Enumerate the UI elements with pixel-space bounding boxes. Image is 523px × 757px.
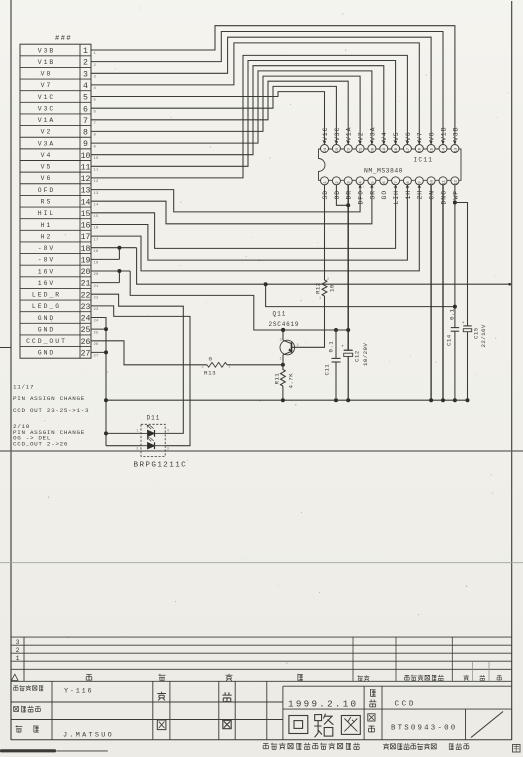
svg-text:V1A: V1A xyxy=(346,127,353,141)
scan crease upper xyxy=(0,450,523,452)
svg-text:3: 3 xyxy=(83,70,88,79)
svg-text:14: 14 xyxy=(94,203,99,207)
svg-text:GND: GND xyxy=(38,326,56,333)
svg-text:0.1: 0.1 xyxy=(327,341,334,353)
wire 16V pins 20-21 join xyxy=(91,269,130,283)
svg-text:10: 10 xyxy=(94,157,99,161)
title area frame xyxy=(283,686,512,740)
svg-text:2H: 2H xyxy=(417,190,424,200)
svg-text:18: 18 xyxy=(81,245,91,254)
revision table digit column xyxy=(16,637,24,681)
wire V2 connector pin 8 to IC pin 21 xyxy=(91,76,360,144)
IC11 top pin circles 24-13 xyxy=(321,145,459,153)
LED D11 element 1 xyxy=(141,425,165,437)
svg-text:0.1: 0.1 xyxy=(448,308,455,320)
svg-text:V4: V4 xyxy=(41,152,53,159)
connector CN1 table frame xyxy=(20,44,91,358)
svg-text:GND: GND xyxy=(38,315,56,322)
title block left section lines xyxy=(11,681,512,739)
IC11 reference label xyxy=(414,157,434,164)
svg-text:2SC4619: 2SC4619 xyxy=(269,321,300,328)
svg-text:1: 1 xyxy=(136,430,139,434)
svg-text:V1B: V1B xyxy=(38,59,56,66)
C11 labels xyxy=(323,341,334,376)
svg-text:17: 17 xyxy=(407,147,411,152)
svg-text:V8: V8 xyxy=(41,71,53,78)
svg-text:6: 6 xyxy=(83,105,88,114)
label 開発コード xyxy=(14,685,44,691)
revision table column dividers xyxy=(353,637,489,681)
wire GND pins 24-25-27 vertical xyxy=(91,318,108,446)
svg-text:-8V: -8V xyxy=(38,257,56,264)
svg-text:15: 15 xyxy=(431,147,435,152)
wire RD IC pin3 down bold xyxy=(347,185,349,351)
wire DS IC pin1 down xyxy=(324,185,326,281)
wire PW branch to C15 xyxy=(455,203,468,326)
wire-to-pin arrowheads xyxy=(323,141,457,188)
wire OFD connector pin 13 to IC pin 4 xyxy=(91,185,360,212)
svg-text:CN: CN xyxy=(429,190,436,200)
scan crease lower xyxy=(0,562,523,564)
svg-text:RS: RS xyxy=(41,199,53,206)
svg-text:1: 1 xyxy=(16,655,20,662)
svg-text:BRPG1211C: BRPG1211C xyxy=(134,462,188,470)
svg-text:21: 21 xyxy=(360,147,364,152)
svg-text:V3C: V3C xyxy=(334,127,341,141)
Q11 labels xyxy=(269,311,300,328)
wire V7 connector pin 4 to IC pin 16 xyxy=(91,43,419,144)
resistor R12 xyxy=(322,280,327,296)
svg-text:13: 13 xyxy=(81,187,91,196)
svg-text:10/20V: 10/20V xyxy=(362,343,369,366)
wire V1A connector pin 7 to IC pin 22 xyxy=(91,81,348,144)
svg-text:V3A: V3A xyxy=(38,140,56,147)
svg-text:10: 10 xyxy=(329,284,336,292)
note CCD OUT 23-25 xyxy=(13,407,89,414)
resistor R13 xyxy=(207,362,227,367)
svg-text:11/17: 11/17 xyxy=(13,384,34,391)
svg-text:LIH: LIH xyxy=(393,190,400,204)
svg-text:22: 22 xyxy=(81,291,91,300)
capacitor C14 xyxy=(451,328,459,403)
transistor Q11 2SC4619 xyxy=(280,328,295,365)
bottom left scan smudge xyxy=(0,749,108,752)
R11 labels xyxy=(274,373,295,389)
svg-text:DR: DR xyxy=(346,190,353,200)
svg-text:LED_R: LED_R xyxy=(32,292,61,299)
svg-text:14: 14 xyxy=(442,147,446,152)
svg-text:2: 2 xyxy=(83,59,88,68)
svg-text:R12: R12 xyxy=(315,282,322,294)
svg-text:IC11: IC11 xyxy=(414,157,434,164)
svg-text:23: 23 xyxy=(94,308,99,312)
svg-text:11: 11 xyxy=(94,169,99,173)
svg-text:3: 3 xyxy=(167,448,170,452)
svg-text:OFD: OFD xyxy=(38,187,56,194)
svg-text:V2: V2 xyxy=(358,131,365,141)
svg-text:J.MATSUO: J.MATSUO xyxy=(63,732,114,740)
R12 labels xyxy=(315,278,336,301)
label 図番 xyxy=(368,714,375,732)
revision header kanji 変更通知番号 xyxy=(405,675,444,681)
svg-text:CCD_OUT: CCD_OUT xyxy=(26,338,67,345)
wire 16V feed to supply rail xyxy=(130,271,348,330)
revision header kanji 担当 xyxy=(358,675,370,681)
wire CCD_OUT connector pin 26 xyxy=(91,341,207,365)
svg-text:DNG: DNG xyxy=(440,190,447,204)
svg-text:V3B: V3B xyxy=(452,127,459,141)
svg-text:V6: V6 xyxy=(405,131,412,141)
svg-text:LED_G: LED_G xyxy=(32,303,61,310)
svg-text:20: 20 xyxy=(371,147,375,152)
label 検 xyxy=(157,692,166,701)
LED D11 element 2 xyxy=(141,438,165,450)
wire H2 connector pin 17 to IC pin 9 xyxy=(91,185,419,271)
big title 回 xyxy=(289,716,308,734)
svg-text:V8: V8 xyxy=(429,131,436,141)
svg-text:PIN ASSIGN CHANGE: PIN ASSIGN CHANGE xyxy=(13,395,85,402)
connector tiny stub pin digits xyxy=(94,52,99,358)
svg-text:22: 22 xyxy=(94,296,99,300)
svg-text:NM_MS3840: NM_MS3840 xyxy=(364,167,403,174)
wire R13 to Q11 emitter xyxy=(227,363,285,367)
date 1999.2.10 xyxy=(288,698,358,709)
wire H1 connector pin 16 to IC pin 8 xyxy=(91,185,407,261)
revision table horizontal lines xyxy=(11,637,512,681)
svg-text:11: 11 xyxy=(442,180,446,185)
svg-text:R11: R11 xyxy=(274,373,281,385)
capacitor C15 xyxy=(462,321,472,402)
svg-text:16V: 16V xyxy=(38,268,56,275)
revision header kanji 年月日 xyxy=(464,675,502,681)
svg-text:V1C: V1C xyxy=(322,127,329,141)
caption 富士写真フイルム株式会社 xyxy=(263,743,360,750)
svg-text:8: 8 xyxy=(83,129,88,138)
slash mark xyxy=(471,712,503,738)
svg-text:14: 14 xyxy=(81,198,91,207)
op IC U=IC11 body outline xyxy=(319,149,462,180)
svg-text:CCD_OUT 2->26: CCD_OUT 2->26 xyxy=(13,441,68,448)
big title 路 xyxy=(314,714,333,738)
svg-text:2: 2 xyxy=(202,365,205,369)
label 部品番号 xyxy=(14,706,41,712)
wire -8V pins 18-19 join xyxy=(91,246,137,260)
caption 設計部 xyxy=(449,743,469,749)
svg-text:V1A: V1A xyxy=(38,117,56,124)
svg-text:25: 25 xyxy=(81,326,91,335)
svg-text:26: 26 xyxy=(94,343,99,347)
svg-text:20: 20 xyxy=(81,268,91,277)
svg-text:2: 2 xyxy=(16,647,20,654)
svg-text:25: 25 xyxy=(94,331,99,335)
svg-text:16: 16 xyxy=(81,222,91,231)
svg-text:24: 24 xyxy=(324,147,328,152)
value J.MATSUO xyxy=(63,732,114,740)
svg-text:CCD OUT 23-25->1-3: CCD OUT 23-25->1-3 xyxy=(13,407,89,414)
svg-text:10: 10 xyxy=(81,152,91,161)
svg-text:27: 27 xyxy=(81,350,91,359)
C12 labels xyxy=(353,343,369,366)
D11 pin digits xyxy=(136,430,169,452)
svg-text:DFO: DFO xyxy=(358,190,365,204)
svg-text:11: 11 xyxy=(81,163,91,172)
resistor R11 xyxy=(281,365,286,402)
svg-text:GO: GO xyxy=(381,190,388,200)
svg-text:3: 3 xyxy=(16,639,20,646)
svg-text:V1C: V1C xyxy=(38,94,56,101)
IC11 bottom pin signal labels xyxy=(322,190,459,205)
svg-text:2: 2 xyxy=(136,448,139,452)
svg-text:SD: SD xyxy=(322,190,329,200)
connector pin name and number labels xyxy=(26,47,90,358)
left page border xyxy=(10,0,12,740)
svg-text:WP: WP xyxy=(452,190,459,200)
svg-text:22/16V: 22/16V xyxy=(480,324,487,347)
IC11 part number NM_MS3840 xyxy=(364,167,403,174)
svg-text:22: 22 xyxy=(348,147,352,152)
wire NC IC pin10 to rail xyxy=(429,185,433,403)
wire GND IC pin11 to rail xyxy=(441,185,445,403)
svg-text:BTS0943-00: BTS0943-00 xyxy=(391,725,457,733)
svg-text:V3B: V3B xyxy=(38,47,56,54)
wire V3A connector pin 9 to IC pin 20 xyxy=(91,71,372,144)
svg-text:OD: OD xyxy=(334,190,341,200)
svg-text:0: 0 xyxy=(209,355,213,362)
svg-text:V5: V5 xyxy=(41,164,53,171)
svg-text:15: 15 xyxy=(81,210,91,219)
label 図 xyxy=(157,720,166,730)
svg-text:4.7K: 4.7K xyxy=(287,373,294,389)
IC11 bottom pin circles 1-12 xyxy=(321,177,459,185)
Q11 pin digits xyxy=(280,339,300,362)
caption 電子映像事業本部 xyxy=(383,743,436,749)
svg-text:16: 16 xyxy=(94,227,99,231)
wire C12 to rail xyxy=(346,356,350,402)
BRPG1211C label xyxy=(134,462,188,470)
svg-text:19: 19 xyxy=(94,262,99,266)
svg-text:1999.2.10: 1999.2.10 xyxy=(288,698,358,709)
svg-text:+: + xyxy=(462,321,465,326)
svg-text:17: 17 xyxy=(81,233,91,242)
svg-text:Q11: Q11 xyxy=(273,311,287,318)
svg-text:21: 21 xyxy=(81,280,91,289)
svg-text:26: 26 xyxy=(81,338,91,347)
wire HIL connector pin 15 to IC pin 7 xyxy=(91,185,396,249)
svg-text:13: 13 xyxy=(454,147,458,152)
wire R12 to Q11 base xyxy=(292,296,325,347)
value Y-116 xyxy=(64,687,93,695)
svg-text:CCD: CCD xyxy=(395,700,416,708)
svg-text:1: 1 xyxy=(319,297,322,301)
wire V1C connector pin 5 to IC pin 24 xyxy=(91,92,325,145)
wire RS connector pin 14 to IC pin 5 xyxy=(91,185,372,224)
connector hash marks xyxy=(55,35,72,43)
revision header kanji 変更内容 xyxy=(86,674,303,681)
wire PW IC pin12 down xyxy=(453,185,457,328)
svg-text:V7: V7 xyxy=(41,82,53,89)
wire LED_G connector pin 23 to D11 pin 3 xyxy=(91,306,190,446)
svg-text:C11: C11 xyxy=(323,364,330,376)
C14 labels xyxy=(445,308,455,346)
svg-text:1: 1 xyxy=(83,47,88,56)
svg-text:19: 19 xyxy=(81,257,91,266)
value CCD xyxy=(395,700,416,708)
svg-text:27: 27 xyxy=(94,355,99,359)
R13 labels xyxy=(202,355,232,376)
capacitor C11 xyxy=(332,330,341,402)
label 承 xyxy=(222,692,231,701)
IC11 top pin signal labels xyxy=(322,127,459,141)
wire V6 connector pin 12 to IC pin 17 xyxy=(91,55,407,177)
svg-text:1: 1 xyxy=(280,358,283,362)
svg-text:V2: V2 xyxy=(41,129,53,136)
svg-text:18: 18 xyxy=(395,147,399,152)
svg-text:12: 12 xyxy=(81,175,91,184)
svg-text:###: ### xyxy=(55,35,72,43)
svg-text:R13: R13 xyxy=(204,369,216,376)
wire DO IC pin2 xyxy=(336,185,350,208)
svg-text:10: 10 xyxy=(431,180,435,185)
wire V3C connector pin 6 to IC pin 23 xyxy=(91,86,336,144)
svg-text:9: 9 xyxy=(83,140,88,149)
svg-text:2: 2 xyxy=(297,344,300,348)
svg-text:16V: 16V xyxy=(38,280,56,287)
svg-text:+: + xyxy=(341,345,344,350)
svg-text:V7: V7 xyxy=(417,131,424,141)
value BTS0943-00 xyxy=(391,725,457,733)
svg-text:2: 2 xyxy=(327,278,330,282)
note PIN ASSIGN CHANGE xyxy=(13,395,85,402)
svg-text:5: 5 xyxy=(83,94,88,103)
svg-text:C15: C15 xyxy=(472,327,479,339)
svg-text:HIL: HIL xyxy=(38,210,56,217)
svg-text:24: 24 xyxy=(81,315,91,324)
label 認 xyxy=(223,720,231,728)
svg-text:15: 15 xyxy=(94,215,99,219)
note 2/10 block xyxy=(13,423,85,448)
svg-text:12: 12 xyxy=(94,180,99,184)
svg-text:V3A: V3A xyxy=(369,127,376,141)
svg-text:C14: C14 xyxy=(445,334,452,346)
svg-text:12: 12 xyxy=(454,180,458,185)
svg-text:13: 13 xyxy=(94,192,99,196)
wire V1B connector pin 2 to IC pin 14 xyxy=(91,32,443,145)
svg-text:18: 18 xyxy=(94,250,99,254)
svg-text:C12: C12 xyxy=(353,350,360,362)
label 担当 xyxy=(16,725,39,732)
svg-text:16: 16 xyxy=(419,147,423,152)
svg-text:H2: H2 xyxy=(41,233,53,240)
svg-text:17: 17 xyxy=(94,238,99,242)
svg-text:7: 7 xyxy=(83,117,88,126)
left border center tick xyxy=(0,347,11,349)
svg-text:-8V: -8V xyxy=(38,245,56,252)
wire V3B connector pin 1 to IC pin 13 xyxy=(91,26,455,145)
svg-text:GND: GND xyxy=(38,350,56,357)
svg-text:V1B: V1B xyxy=(440,127,447,141)
svg-text:SR: SR xyxy=(369,190,376,200)
right page border xyxy=(511,1,513,740)
node supply rail junction dots xyxy=(281,328,350,332)
note 11/17 xyxy=(13,384,34,391)
svg-text:20: 20 xyxy=(94,273,99,277)
wire V5 connector pin 11 to IC pin 18 xyxy=(91,61,396,167)
wire -8V branch to PW node xyxy=(264,282,455,306)
svg-text:Y-116: Y-116 xyxy=(64,687,93,695)
wire GND to D11 pins 1-2 xyxy=(104,431,141,445)
dual LED D11 dashed box xyxy=(141,424,165,456)
svg-text:23: 23 xyxy=(336,147,340,152)
svg-text:V5: V5 xyxy=(393,131,400,141)
revision delta symbol xyxy=(12,674,19,680)
svg-text:7: 7 xyxy=(94,122,96,126)
svg-text:19: 19 xyxy=(383,147,387,152)
svg-text:4: 4 xyxy=(167,430,170,434)
svg-text:23: 23 xyxy=(81,303,91,312)
svg-text:4: 4 xyxy=(83,82,88,91)
wire -8V run to right border xyxy=(137,248,511,286)
bottom right scan mark xyxy=(513,745,521,753)
wire V4 connector pin 10 to IC pin 19 xyxy=(91,66,384,155)
svg-text:3: 3 xyxy=(280,339,283,343)
wire V8 connector pin 3 to IC pin 15 xyxy=(91,37,431,144)
C15 labels xyxy=(472,324,487,347)
svg-text:1H: 1H xyxy=(405,190,412,200)
ground rail xyxy=(104,398,468,402)
svg-text:V4: V4 xyxy=(381,131,388,141)
capacitor C12 xyxy=(341,345,353,357)
wire LED_R connector pin 22 to D11 pin 4 xyxy=(91,294,183,433)
svg-text:24: 24 xyxy=(94,320,99,324)
D11 label xyxy=(147,415,161,422)
big title 図 xyxy=(341,716,360,735)
svg-text:21: 21 xyxy=(94,285,99,289)
svg-text:V3C: V3C xyxy=(38,106,56,113)
svg-text:V6: V6 xyxy=(41,175,53,182)
label 名称 xyxy=(369,689,376,707)
svg-text:H1: H1 xyxy=(41,222,53,229)
svg-text:D11: D11 xyxy=(147,415,161,422)
svg-text:1: 1 xyxy=(229,365,232,369)
